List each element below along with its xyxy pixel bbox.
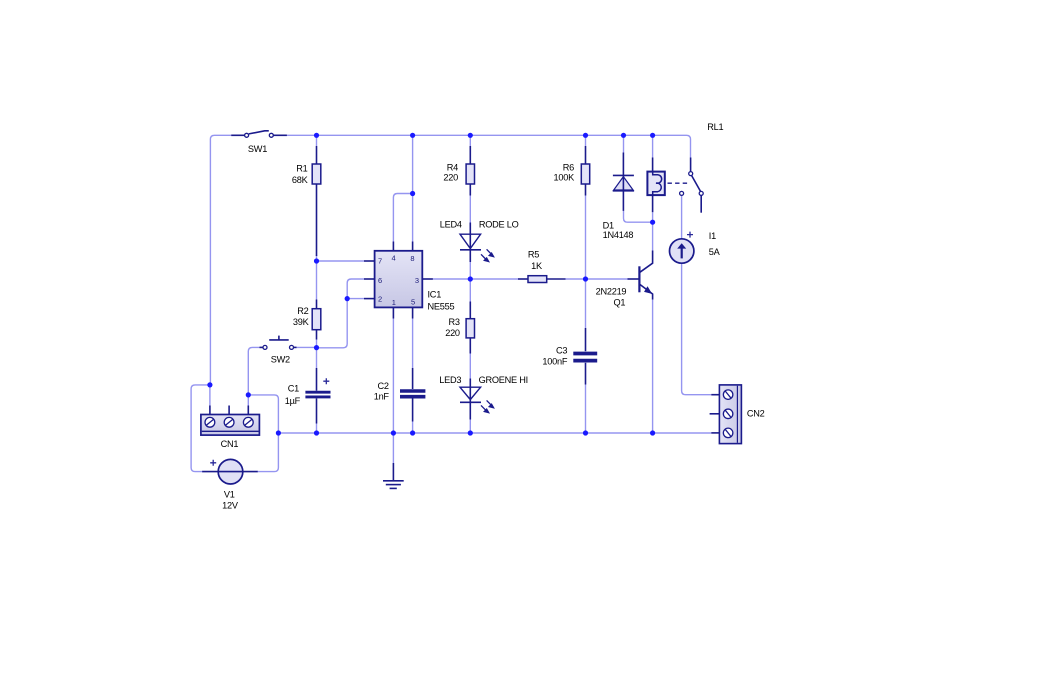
- node pin7 R1 R2: [314, 258, 319, 263]
- wire pin 3: [433, 278, 470, 280]
- LED LED3: [460, 379, 494, 420]
- svg-text:R1: R1: [296, 163, 307, 173]
- wire D1 bottom to coil node: [624, 211, 653, 222]
- node top rail at D1: [621, 133, 626, 138]
- svg-text:68K: 68K: [292, 175, 309, 185]
- wire node to C3 top: [585, 279, 587, 328]
- svg-text:R4: R4: [447, 162, 458, 172]
- node left rail CN1 V1: [207, 382, 212, 387]
- svg-text:I1: I1: [709, 231, 716, 241]
- node bottom rail V1 tee: [276, 430, 281, 435]
- svg-text:RL1: RL1: [707, 122, 723, 132]
- capacitor C1: [305, 368, 330, 424]
- LED LED4: [460, 223, 494, 263]
- svg-text:SW1: SW1: [248, 144, 267, 154]
- wire R3 bottom to LED3: [469, 354, 471, 379]
- svg-text:IC1: IC1: [428, 290, 442, 300]
- wire SW2 right to node: [296, 346, 317, 348]
- node bottom rail LED3: [468, 430, 473, 435]
- wire R4 top: [469, 135, 471, 146]
- svg-text:GROENE HI: GROENE HI: [479, 375, 528, 385]
- wire R2 bottom: [316, 340, 318, 348]
- svg-text:D1: D1: [603, 220, 614, 230]
- wire pin 7: [317, 260, 365, 262]
- relay RL1 contact linkage dashed: [668, 182, 690, 184]
- wire pin 4 up and right: [393, 194, 412, 242]
- node bottom rail pin1: [391, 430, 396, 435]
- svg-text:CN2: CN2: [747, 409, 765, 419]
- wire C2 bottom: [412, 422, 414, 434]
- wire V1 right bracket up to CN1 pin3 node: [248, 395, 278, 472]
- svg-text:100K: 100K: [554, 172, 576, 182]
- wire bottom rail: [278, 432, 711, 434]
- svg-text:3: 3: [415, 276, 419, 285]
- svg-text:SW2: SW2: [271, 354, 290, 364]
- node top rail at R6: [583, 133, 588, 138]
- wire C1 bottom to bottom rail: [316, 424, 318, 434]
- wire top rail from SW1 to RL1 corner: [287, 135, 691, 157]
- wire R1 top: [316, 135, 318, 146]
- svg-text:R5: R5: [528, 249, 539, 259]
- node top rail at relay: [650, 133, 655, 138]
- transistor Q1 2N2219: [628, 251, 653, 300]
- op-amp U1 placeholder: IC1 NE555 body: [364, 242, 433, 319]
- wire R6 top: [585, 135, 587, 146]
- svg-text:5: 5: [411, 298, 415, 307]
- wire LED3 bottom to bottom rail: [469, 420, 471, 434]
- svg-text:C3: C3: [556, 345, 567, 355]
- node pin3 LED4 R3: [468, 276, 473, 281]
- svg-text:LED3: LED3: [439, 375, 461, 385]
- svg-text:8: 8: [410, 254, 414, 263]
- svg-text:1: 1: [392, 298, 396, 307]
- node bottom rail Q1 emitter: [650, 430, 655, 435]
- wire D1 top: [623, 135, 625, 152]
- wire SW2 left down to CN1 pin3 node: [248, 347, 259, 395]
- svg-text:C1: C1: [288, 383, 299, 393]
- svg-text:1N4148: 1N4148: [603, 230, 634, 240]
- current source I1: [670, 232, 694, 264]
- wire R2 top: [316, 261, 318, 300]
- ground: [383, 463, 404, 488]
- wire I1 bottom to CN2 pin1: [682, 263, 712, 395]
- relay RL1 contact switch: [680, 158, 704, 213]
- capacitor C3: [573, 328, 597, 385]
- wire relay coil bottom to node: [652, 212, 654, 222]
- node top rail at R4: [468, 133, 473, 138]
- svg-text:4: 4: [392, 254, 396, 263]
- node R5 R6 C3 base: [583, 276, 588, 281]
- relay RL1 coil: [647, 158, 664, 213]
- wire node to pins 6 and 2: [317, 279, 365, 348]
- wire C3 bottom to bottom rail: [585, 385, 587, 434]
- svg-text:LED4: LED4: [440, 220, 462, 230]
- wire R4 bottom to LED4: [469, 196, 471, 223]
- svg-text:12V: 12V: [222, 501, 239, 511]
- svg-text:2N2219: 2N2219: [596, 286, 627, 296]
- voltage source V1: [202, 459, 258, 484]
- wire node to Q1 collector: [652, 222, 654, 250]
- resistor R6: [581, 146, 589, 196]
- node D1 coil collector: [650, 220, 655, 225]
- node R2 SW2 C1: [314, 345, 319, 350]
- node top rail at R1: [314, 133, 319, 138]
- wire relay contact lower-left to I1 top: [681, 196, 683, 239]
- node SW2 CN1 pin3 V1: [246, 392, 251, 397]
- resistor R3: [466, 302, 474, 354]
- svg-text:1nF: 1nF: [374, 392, 390, 402]
- svg-text:5A: 5A: [709, 247, 721, 257]
- wire LED4 bottom to pin3 row: [469, 262, 471, 280]
- resistor R2: [312, 300, 321, 340]
- node top rail at pin8 column: [410, 133, 415, 138]
- svg-text:R3: R3: [449, 317, 460, 327]
- wire R1 bottom to node pin7: [316, 255, 318, 261]
- svg-text:39K: 39K: [293, 317, 310, 327]
- node bottom rail C2: [410, 430, 415, 435]
- wire node to C1 top: [316, 348, 318, 368]
- svg-text:6: 6: [378, 276, 382, 285]
- wire R5 right to node: [566, 278, 586, 280]
- resistor R1: [312, 146, 321, 256]
- wire pin3 row to R5: [470, 278, 518, 280]
- node bottom rail C1: [314, 430, 319, 435]
- wire top rail left segment with corner to left rail: [210, 135, 231, 385]
- svg-text:V1: V1: [224, 490, 235, 500]
- wire pin 8 to top rail: [412, 135, 414, 241]
- resistor R5: [518, 276, 566, 283]
- switch SW1: [231, 131, 287, 138]
- wire pin 2: [347, 298, 364, 300]
- wire pin 1 down to ground: [392, 319, 394, 464]
- connector CN1: [201, 406, 260, 436]
- svg-text:RODE LO: RODE LO: [479, 220, 519, 230]
- svg-text:220: 220: [443, 172, 458, 182]
- wire CN1 pin3 from node: [247, 395, 249, 406]
- svg-text:NE555: NE555: [428, 302, 455, 312]
- svg-text:R2: R2: [297, 306, 308, 316]
- node pin4 pin8 junction: [410, 191, 415, 196]
- svg-text:7: 7: [378, 257, 382, 266]
- node pin2 tee: [345, 296, 350, 301]
- svg-text:100nF: 100nF: [542, 356, 567, 366]
- svg-text:1µF: 1µF: [285, 396, 301, 406]
- svg-text:220: 220: [445, 328, 460, 338]
- wire R6 bottom to node: [585, 196, 587, 280]
- wire R3 top: [469, 279, 471, 302]
- svg-text:C2: C2: [378, 381, 389, 391]
- wire pin 5 to C2: [412, 319, 414, 369]
- connector CN2: [710, 385, 742, 444]
- switch SW2 pushbutton: [260, 336, 297, 350]
- svg-text:CN1: CN1: [221, 439, 239, 449]
- svg-text:2: 2: [378, 295, 382, 304]
- wire CN1 pin1 from left rail node: [209, 385, 211, 406]
- capacitor C2: [400, 368, 425, 422]
- wire relay coil top: [652, 135, 654, 157]
- svg-text:R6: R6: [563, 162, 574, 172]
- node bottom rail C3: [583, 430, 588, 435]
- svg-text:1K: 1K: [531, 261, 543, 271]
- wire Q1 emitter to bottom rail: [652, 300, 654, 434]
- resistor R4: [466, 146, 474, 196]
- svg-text:Q1: Q1: [614, 297, 626, 307]
- diode D1: [613, 153, 634, 211]
- wire node to Q1 base: [586, 278, 628, 280]
- wire V1 left bracket: [191, 385, 210, 472]
